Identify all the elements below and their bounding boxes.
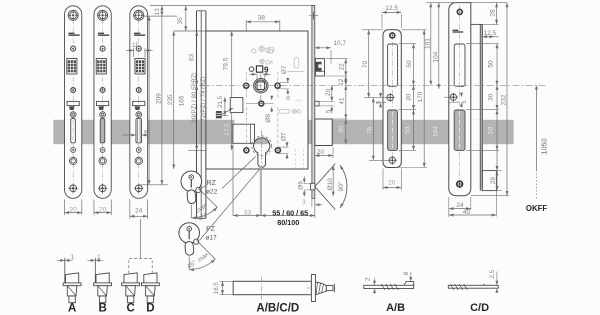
svg-text:101: 101 bbox=[424, 38, 431, 49]
svg-text:RZ: RZ bbox=[207, 180, 217, 187]
svg-text:2,5: 2,5 bbox=[489, 269, 496, 278]
svg-text:2: 2 bbox=[365, 277, 372, 281]
svg-text:9: 9 bbox=[264, 65, 269, 74]
svg-text:16,5: 16,5 bbox=[213, 282, 220, 295]
svg-text:28: 28 bbox=[490, 177, 497, 185]
svg-text:38: 38 bbox=[258, 15, 266, 22]
svg-text:30: 30 bbox=[338, 126, 345, 133]
svg-text:232: 232 bbox=[501, 94, 508, 105]
svg-text:OKFF: OKFF bbox=[526, 204, 547, 213]
svg-text:A/B: A/B bbox=[386, 302, 405, 314]
svg-text:1050: 1050 bbox=[540, 139, 549, 155]
svg-text:35: 35 bbox=[177, 17, 184, 25]
svg-text:C/D: C/D bbox=[470, 302, 489, 314]
svg-text:80/100: 80/100 bbox=[277, 218, 299, 227]
svg-text:C: C bbox=[126, 303, 134, 315]
svg-text:13: 13 bbox=[154, 8, 161, 15]
svg-text:ø22: ø22 bbox=[206, 188, 218, 195]
svg-text:50: 50 bbox=[405, 126, 412, 134]
svg-text:Ø7: Ø7 bbox=[281, 65, 288, 74]
svg-text:B: B bbox=[98, 303, 106, 315]
svg-text:50: 50 bbox=[487, 126, 494, 134]
svg-text:55 / 60 / 65: 55 / 60 / 65 bbox=[272, 208, 308, 217]
svg-text:79,5: 79,5 bbox=[223, 57, 230, 70]
svg-text:20: 20 bbox=[70, 207, 78, 214]
svg-text:1: 1 bbox=[71, 254, 75, 261]
svg-text:10,7: 10,7 bbox=[333, 40, 346, 47]
svg-text:8: 8 bbox=[403, 271, 410, 275]
svg-text:63: 63 bbox=[189, 54, 196, 62]
svg-text:Ø7: Ø7 bbox=[280, 132, 287, 141]
svg-text:12: 12 bbox=[338, 78, 345, 85]
svg-text:17,5: 17,5 bbox=[224, 123, 231, 136]
svg-text:33: 33 bbox=[244, 210, 252, 217]
svg-text:90°: 90° bbox=[337, 181, 345, 191]
svg-text:30: 30 bbox=[406, 93, 413, 101]
svg-text:5: 5 bbox=[376, 101, 382, 104]
svg-text:235: 235 bbox=[167, 94, 174, 105]
svg-text:170: 170 bbox=[417, 91, 424, 102]
svg-text:3: 3 bbox=[302, 199, 306, 206]
svg-text:A: A bbox=[68, 303, 76, 315]
svg-text:104: 104 bbox=[433, 126, 440, 137]
svg-text:D: D bbox=[146, 303, 154, 315]
svg-text:20: 20 bbox=[99, 207, 107, 214]
svg-text:S019: S019 bbox=[295, 99, 302, 103]
svg-text:11: 11 bbox=[132, 42, 139, 49]
svg-text:Ø8: Ø8 bbox=[265, 114, 272, 123]
svg-text:5: 5 bbox=[462, 100, 468, 103]
svg-text:165: 165 bbox=[179, 95, 186, 106]
svg-text:41: 41 bbox=[338, 97, 345, 104]
svg-text:Ø6: Ø6 bbox=[298, 181, 305, 190]
svg-text:28: 28 bbox=[489, 9, 496, 17]
svg-text:104: 104 bbox=[433, 51, 440, 62]
svg-text:24: 24 bbox=[135, 207, 143, 214]
svg-text:30: 30 bbox=[487, 93, 494, 101]
svg-text:20: 20 bbox=[388, 180, 396, 187]
svg-text:Ø10: Ø10 bbox=[327, 178, 334, 191]
svg-text:76: 76 bbox=[367, 127, 374, 135]
svg-text:70: 70 bbox=[362, 61, 369, 69]
svg-text:22: 22 bbox=[338, 63, 345, 70]
svg-text:21,5: 21,5 bbox=[217, 95, 224, 108]
svg-text:50: 50 bbox=[406, 60, 413, 68]
svg-text:ø17: ø17 bbox=[205, 235, 217, 242]
svg-text:A/B/C/D: A/B/C/D bbox=[256, 303, 299, 315]
svg-text:12,5: 12,5 bbox=[385, 5, 398, 12]
svg-text:50: 50 bbox=[487, 60, 494, 68]
